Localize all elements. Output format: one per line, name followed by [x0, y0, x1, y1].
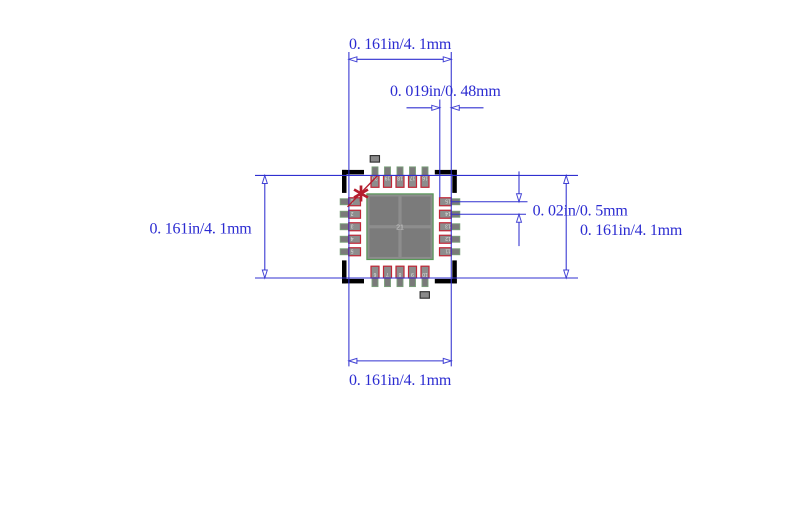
pin 3 lead outline	[349, 223, 361, 231]
svg-text:0. 161in/4. 1mm: 0. 161in/4. 1mm	[349, 372, 452, 389]
pad 7 copper land (bottom)	[385, 266, 391, 286]
dimension label: right height 0.161in/4.1mm	[580, 222, 683, 239]
wire: pitch dimension stem upper	[518, 171, 520, 193]
pad 13 copper land (right)	[440, 224, 460, 230]
svg-text:7: 7	[386, 271, 389, 277]
svg-text:9: 9	[411, 271, 414, 277]
corner bracket bottom-right	[435, 260, 457, 283]
dimension label: pin pitch 0.02in/0.5mm	[533, 203, 629, 220]
wire: pitch dimension stem lower	[518, 222, 520, 246]
svg-text:2: 2	[350, 210, 353, 216]
dimension label: top width 0.161in/4.1mm	[349, 36, 452, 53]
pin 16 lead outline	[421, 174, 429, 187]
dimension label: bottom width 0.161in/4.1mm	[349, 372, 452, 389]
svg-text:8: 8	[398, 271, 401, 277]
arrowhead left, top dimension	[349, 57, 357, 62]
pin 13 lead outline	[440, 223, 452, 231]
svg-text:0. 161in/4. 1mm: 0. 161in/4. 1mm	[580, 222, 683, 239]
pin 1 marker: red asterisk	[354, 186, 368, 202]
arrowhead left, bottom dimension	[349, 358, 357, 363]
fiducial mark (top)	[370, 156, 379, 163]
fiducial mark (bottom)	[420, 292, 429, 299]
pin 2 lead outline	[349, 210, 361, 218]
svg-text:21: 21	[396, 224, 404, 231]
pin 7 lead outline	[384, 266, 392, 278]
arrowhead up, left dimension	[262, 175, 267, 183]
svg-text:5: 5	[350, 248, 353, 254]
svg-text:14: 14	[445, 210, 451, 216]
wire: right height dimension line	[565, 183, 567, 270]
pin 10 lead outline	[421, 266, 429, 278]
svg-text:0. 019in/0. 48mm: 0. 019in/0. 48mm	[390, 83, 501, 100]
arrowhead right, bottom dimension	[443, 358, 451, 363]
arrowhead down, right dimension	[564, 270, 569, 278]
svg-text:4: 4	[350, 235, 353, 241]
pin 9 lead outline	[409, 266, 417, 278]
arrowhead up, right dimension	[564, 175, 569, 183]
pad 19 copper land (top)	[385, 167, 391, 187]
wire: extension line, package bottom edge	[255, 277, 578, 279]
wire: pitch dimension reference line, pin 14	[451, 213, 526, 215]
pad 6 copper land (bottom)	[372, 266, 378, 286]
arrowhead pointing left, 0.48mm dimension	[451, 105, 459, 110]
pin 8 lead outline	[396, 266, 404, 278]
pin 14 lead outline	[440, 210, 452, 218]
svg-text:0. 161in/4. 1mm: 0. 161in/4. 1mm	[149, 221, 252, 238]
arrowhead down, left dimension	[262, 270, 267, 278]
pad 17 copper land (top)	[410, 167, 416, 187]
pin 15 lead outline	[440, 198, 452, 206]
pad 12 copper land (right)	[440, 236, 460, 242]
pad 20 copper land (top)	[372, 167, 378, 187]
wire: extension line for 0.48mm pad dimension	[439, 100, 441, 198]
svg-text:3: 3	[350, 223, 353, 229]
arrowhead down, pitch dimension	[517, 194, 522, 202]
corner bracket top-left	[342, 170, 364, 193]
arrowhead up, pitch dimension	[517, 214, 522, 222]
wire: bottom width dimension line	[357, 360, 443, 362]
corner bracket top-right	[435, 170, 457, 193]
pad 2 copper land (left)	[340, 211, 360, 217]
pad 9 copper land (bottom)	[410, 266, 416, 286]
pin 20 lead outline	[371, 174, 379, 187]
pin 18 lead outline	[396, 174, 404, 187]
svg-text:15: 15	[445, 198, 451, 204]
pin 1 lead outline	[349, 198, 361, 206]
wire: extension line, package left edge	[348, 52, 350, 366]
wire: left height dimension line	[264, 183, 266, 270]
pad 10 copper land (bottom)	[422, 266, 428, 286]
pin 1 indicator line (diagonal)	[348, 176, 378, 207]
pad 4 copper land (left)	[340, 236, 360, 242]
arrowhead pointing right, 0.48mm dimension	[432, 105, 440, 110]
dimension label: pad width 0.019in/0.48mm	[390, 83, 501, 100]
pad 8 copper land (bottom)	[397, 266, 403, 286]
wire: 0.48mm dimension leader right	[459, 107, 483, 109]
svg-text:11: 11	[445, 248, 450, 254]
pad 1 copper land (left)	[340, 199, 360, 205]
pin 6 lead outline	[371, 266, 379, 278]
arrowhead right, top dimension	[443, 57, 451, 62]
pin 11 lead outline	[440, 248, 452, 256]
pad 15 copper land (right)	[440, 199, 460, 205]
svg-text:10: 10	[422, 271, 428, 277]
pin 19 lead outline	[384, 174, 392, 187]
svg-text:12: 12	[445, 235, 451, 241]
wire: top width dimension line	[357, 58, 443, 60]
pin 4 lead outline	[349, 235, 361, 243]
svg-text:0. 161in/4. 1mm: 0. 161in/4. 1mm	[349, 36, 452, 53]
pad 11 copper land (right)	[440, 249, 460, 255]
pad 16 copper land (top)	[422, 167, 428, 187]
pin 17 lead outline	[409, 174, 417, 187]
pad 3 copper land (left)	[340, 224, 360, 230]
wire: pitch dimension reference line, pin 15	[451, 201, 527, 203]
svg-text:0. 02in/0. 5mm: 0. 02in/0. 5mm	[533, 203, 629, 220]
svg-text:13: 13	[445, 223, 451, 229]
pad 14 copper land (right)	[440, 211, 460, 217]
pin 5 lead outline	[349, 248, 361, 256]
pin 12 lead outline	[440, 235, 452, 243]
pad 5 copper land (left)	[340, 249, 360, 255]
wire: extension line, package right edge	[450, 52, 452, 366]
exposed pad 21 (thermal pad)	[367, 194, 433, 260]
pad 18 copper land (top)	[397, 167, 403, 187]
wire: extension line, package top edge	[255, 174, 578, 176]
corner bracket bottom-left	[342, 260, 364, 283]
svg-text:6: 6	[373, 271, 376, 277]
wire: 0.48mm dimension leader left	[407, 107, 432, 109]
dimension label: left height 0.161in/4.1mm	[149, 221, 252, 238]
